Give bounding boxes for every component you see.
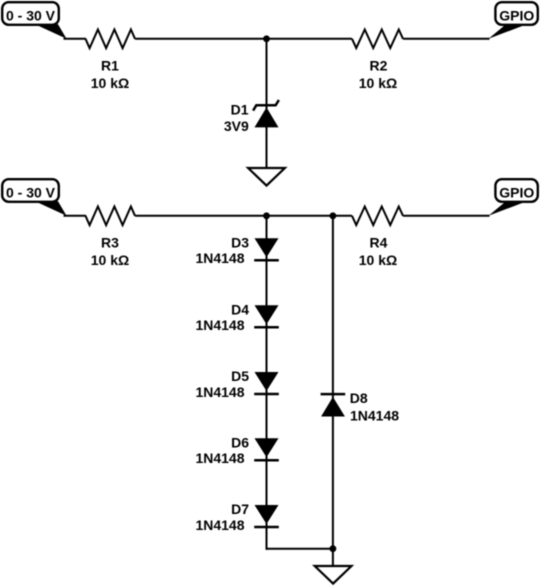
svg-text:GPIO: GPIO — [499, 185, 534, 201]
resistor R2 — [352, 30, 403, 49]
svg-text:R4: R4 — [370, 235, 388, 251]
zener diode D1 — [253, 100, 279, 127]
svg-text:R2: R2 — [370, 58, 388, 74]
svg-text:D7: D7 — [231, 501, 249, 517]
wire (D8 branch) — [332, 216, 334, 567]
svg-text:0 - 30 V: 0 - 30 V — [6, 8, 56, 24]
svg-text:1N4148: 1N4148 — [195, 384, 244, 400]
resistor R4 — [352, 207, 403, 226]
svg-text:0 - 30 V: 0 - 30 V — [6, 185, 56, 201]
junction node (bottom) — [330, 545, 337, 552]
net flag GPIO (bottom) — [489, 179, 538, 216]
svg-text:GPIO: GPIO — [499, 8, 534, 24]
diode D3 — [254, 238, 279, 260]
svg-text:D1: D1 — [231, 102, 249, 118]
wire (bottom) — [266, 548, 333, 550]
ground (bottom) — [315, 566, 352, 584]
wire — [64, 38, 87, 40]
net flag 0 - 30 V (bottom) — [2, 179, 66, 216]
net flag 0 - 30 V (top) — [2, 2, 66, 39]
wire — [135, 215, 352, 217]
wire (diode chain) — [266, 216, 268, 550]
wire — [403, 215, 490, 217]
svg-text:1N4148: 1N4148 — [195, 317, 244, 333]
svg-text:10 kΩ: 10 kΩ — [359, 252, 397, 268]
svg-text:D3: D3 — [231, 234, 249, 250]
svg-text:10 kΩ: 10 kΩ — [91, 75, 129, 91]
svg-text:10 kΩ: 10 kΩ — [359, 75, 397, 91]
junction node (D8 top) — [330, 212, 337, 219]
junction node (chain top) — [263, 212, 270, 219]
svg-text:D8: D8 — [350, 390, 368, 406]
wire — [135, 38, 352, 40]
diode D5 — [254, 372, 279, 394]
wire — [64, 215, 87, 217]
svg-text:D4: D4 — [231, 301, 249, 317]
svg-text:10 kΩ: 10 kΩ — [91, 252, 129, 268]
diode D4 — [254, 305, 279, 327]
ground (top) — [248, 168, 285, 186]
resistor R1 — [86, 30, 136, 49]
net flag GPIO (top) — [489, 2, 538, 39]
junction node (top) — [263, 35, 270, 42]
svg-text:1N4148: 1N4148 — [195, 250, 244, 266]
svg-text:R3: R3 — [101, 235, 119, 251]
diode D7 — [254, 505, 279, 527]
svg-text:1N4148: 1N4148 — [350, 407, 399, 423]
svg-text:1N4148: 1N4148 — [195, 517, 244, 533]
wire — [266, 39, 268, 169]
diode D6 — [254, 438, 279, 460]
diode D8 — [321, 394, 346, 416]
svg-text:3V9: 3V9 — [224, 118, 249, 134]
resistor R3 — [86, 207, 136, 226]
svg-text:1N4148: 1N4148 — [195, 450, 244, 466]
svg-text:D6: D6 — [231, 434, 249, 450]
svg-text:R1: R1 — [101, 58, 119, 74]
svg-text:D5: D5 — [231, 368, 249, 384]
wire — [403, 38, 490, 40]
